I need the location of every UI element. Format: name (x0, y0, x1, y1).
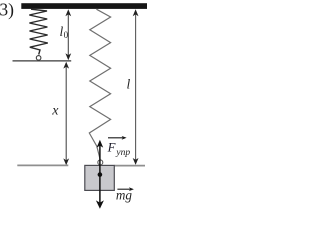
hook of unstretched spring (36, 56, 41, 61)
svg-text:mg: mg (116, 187, 133, 202)
dimension line x (65, 65, 67, 163)
mass block (85, 165, 115, 190)
svg-text:l: l (127, 77, 131, 92)
svg-text:F: F (107, 141, 116, 155)
spring (unstretched, length l0) (29, 9, 48, 54)
force F (spring force) vector (99, 146, 101, 175)
hook of stretched spring (98, 160, 103, 165)
ceiling (21, 3, 147, 9)
equilibrium level line right (115, 165, 145, 167)
svg-text:упр: упр (115, 148, 130, 158)
svg-text:0: 0 (64, 30, 69, 40)
label mg with vector arrow (117, 188, 132, 190)
weight mg vector (99, 175, 101, 203)
dimension line l0 (67, 12, 69, 57)
dimension line l (135, 12, 137, 162)
natural length reference line (13, 60, 72, 62)
svg-text:x: x (51, 103, 59, 118)
label F упр with vector arrow (108, 137, 125, 139)
equilibrium level line left (17, 164, 68, 166)
svg-text:3): 3) (0, 0, 14, 19)
center of mass dot (98, 172, 103, 177)
spring (stretched, length l) (89, 9, 110, 159)
